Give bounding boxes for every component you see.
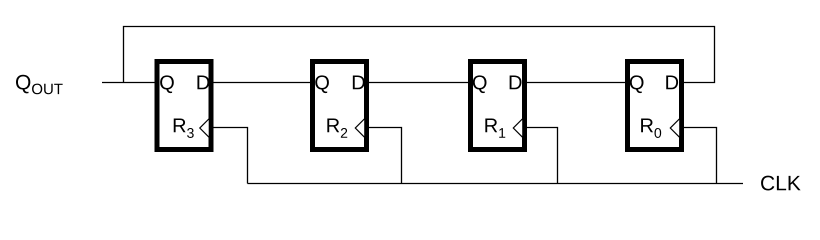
wire D of R3 to Q of R2 — [213, 82, 310, 84]
flip-flop R2 body — [313, 62, 367, 150]
wire CLK bus — [248, 183, 744, 185]
wire D of R2 to Q of R1 — [369, 82, 469, 84]
wire clock of R0 — [684, 128, 717, 184]
clock triangle (R1) — [513, 119, 523, 138]
wire clock of R2 — [369, 128, 402, 184]
flip-flop R3 body — [157, 62, 211, 150]
pin label Q (R0) — [630, 75, 644, 93]
pin label Q (R1) — [473, 75, 487, 93]
label R0 — [641, 119, 661, 138]
wire D of R1 to Q of R0 — [527, 82, 626, 84]
pin label D (R3) — [197, 76, 209, 90]
label R3 — [174, 119, 194, 138]
flip-flop R0 body — [628, 62, 682, 150]
label Q_OUT — [16, 75, 63, 95]
label R1 — [485, 119, 505, 138]
wire clock of R1 — [527, 128, 558, 184]
label R2 — [327, 119, 347, 138]
pin label D (R0) — [666, 76, 678, 90]
wire Q_OUT to R3 — [102, 82, 155, 84]
clock triangle (R2) — [355, 119, 365, 138]
wire feedback Q of R3 to D of R0 (top) — [124, 27, 715, 83]
clock triangle (R0) — [670, 119, 680, 138]
label CLK — [761, 176, 801, 191]
wire clock of R3 — [213, 128, 248, 184]
pin label D (R1) — [510, 76, 522, 90]
pin label D (R2) — [353, 76, 365, 90]
pin label Q (R3) — [160, 75, 174, 93]
clock triangle (R3) — [200, 119, 210, 138]
flip-flop R1 body — [471, 62, 525, 150]
pin label Q (R2) — [315, 75, 329, 93]
